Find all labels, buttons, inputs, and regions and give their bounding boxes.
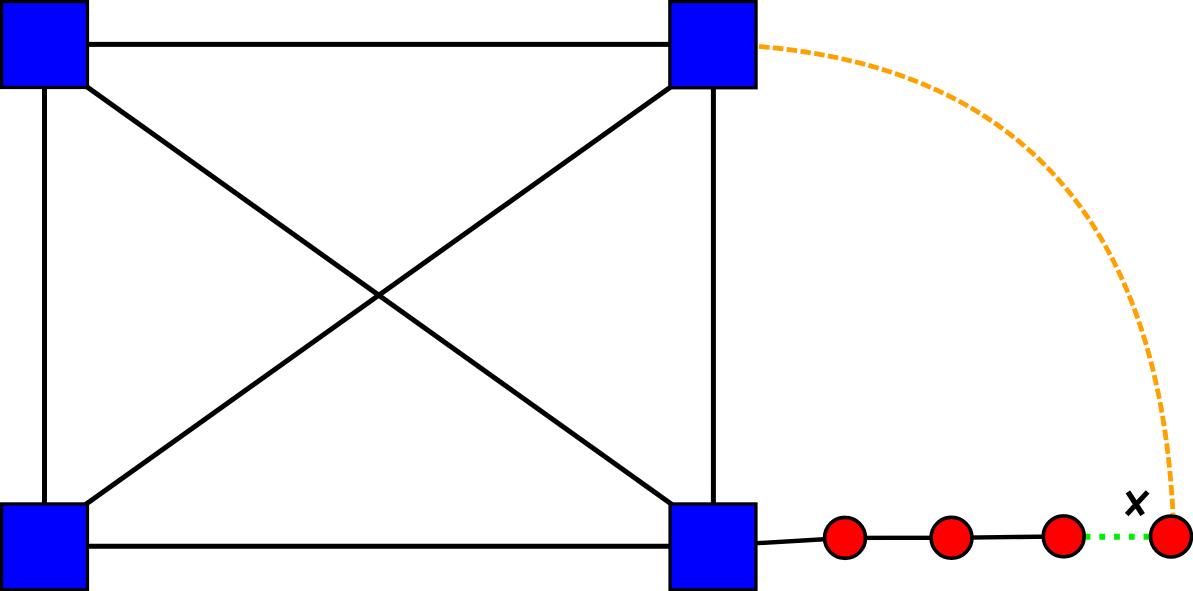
wire green dotted node 3 to node 4 xyxy=(1085,534,1150,540)
node circle 3 xyxy=(1043,516,1084,557)
node square TR xyxy=(670,2,756,88)
node circle 1 xyxy=(825,517,866,558)
label X (stroke 2: top-left to bottom-right) xyxy=(1128,492,1143,515)
wire top edge TL-TR xyxy=(44,42,713,47)
wire right edge TR-BR xyxy=(711,44,716,547)
wire bottom edge BL-BR xyxy=(44,544,713,549)
node circle 4 (X) xyxy=(1151,516,1192,557)
wire node 1 to node 2 xyxy=(845,536,952,541)
label X (stroke 1: top-right to bottom-left) xyxy=(1127,492,1148,515)
node square BL xyxy=(2,504,88,590)
wire diagonal TL-BR xyxy=(82,83,676,507)
node square BR xyxy=(670,504,756,590)
wire node 2 to node 3 xyxy=(952,536,1064,537)
wire diagonal TR-BL xyxy=(82,83,676,507)
node square TL xyxy=(2,2,88,88)
wire left edge TL-BL xyxy=(42,44,47,547)
node circle 2 xyxy=(931,517,972,558)
wire BR square to node 1 xyxy=(750,538,845,544)
wire orange dashed curve TR to node 4 xyxy=(759,47,1173,515)
